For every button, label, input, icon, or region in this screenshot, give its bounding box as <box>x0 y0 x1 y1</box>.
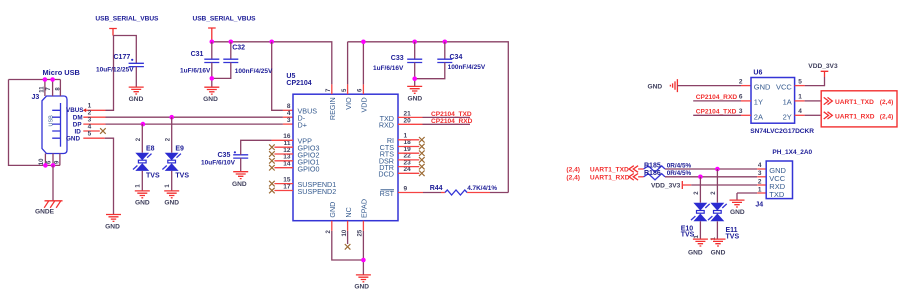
svg-text:1: 1 <box>798 94 802 101</box>
svg-text:2Y: 2Y <box>783 112 792 121</box>
svg-text:1uF/6/16V: 1uF/6/16V <box>373 65 404 72</box>
U5 GPIO no-connect pins <box>269 144 293 193</box>
svg-text:10uF/12/25V: 10uF/12/25V <box>96 67 134 74</box>
svg-text:7: 7 <box>46 87 52 91</box>
svg-text:5: 5 <box>342 88 348 92</box>
ground GND (E11) <box>711 239 726 256</box>
svg-text:TVS: TVS <box>146 172 160 179</box>
U5 left pin numbers <box>283 103 291 190</box>
svg-text:5: 5 <box>88 130 92 137</box>
svg-text:USB_SERIAL_VBUS: USB_SERIAL_VBUS <box>95 16 159 23</box>
svg-text:0R/4/5%: 0R/4/5% <box>667 170 692 177</box>
svg-text:GND: GND <box>66 135 80 142</box>
svg-text:C31: C31 <box>191 51 204 58</box>
svg-text:GND: GND <box>648 83 663 90</box>
ground GND (E8) <box>135 191 150 207</box>
svg-text:2: 2 <box>136 137 142 141</box>
wire U5 GND/EPAD join <box>332 231 364 275</box>
svg-text:USB_SERIAL_VBUS: USB_SERIAL_VBUS <box>193 16 257 23</box>
svg-text:6: 6 <box>358 88 364 92</box>
op-amp U5 CP2104 body <box>286 73 398 221</box>
pin 6 VDD <box>358 84 369 112</box>
node CP2104_TXD pin21 <box>398 111 472 118</box>
wire C35 to gnd <box>240 158 242 171</box>
junction bus/C32 <box>229 40 234 45</box>
wire U6 1A to port <box>795 100 805 102</box>
ground GND (J4 pin1) <box>730 200 745 216</box>
svg-text:2: 2 <box>694 191 700 195</box>
node CP2104_RXD to U6 1Y <box>693 94 751 101</box>
transistor E11 TVS <box>708 169 739 241</box>
svg-text:DCD: DCD <box>378 170 394 179</box>
svg-text:TVS: TVS <box>681 232 695 239</box>
ground GNDE chassis <box>35 201 63 216</box>
power VDD_3V3 (U6) <box>808 63 838 77</box>
junction EPAD gnd <box>361 258 366 263</box>
svg-text:3: 3 <box>739 108 743 115</box>
pin 10 NC no-connect <box>345 231 351 250</box>
ground GND (U5) <box>354 275 371 291</box>
transistor E8 TVS <box>133 124 160 191</box>
node UART1_RXD port <box>824 112 894 121</box>
svg-text:(2,4): (2,4) <box>880 114 894 121</box>
capacitor C31 <box>180 42 219 75</box>
svg-text:CP2104_TXD: CP2104_TXD <box>696 108 737 115</box>
wire DP to U5 D+ <box>83 123 105 125</box>
svg-text:(2,4): (2,4) <box>566 167 580 174</box>
node CP2104_RXD pin20 <box>398 118 473 125</box>
svg-text:9: 9 <box>404 185 408 192</box>
svg-text:USB: USB <box>48 115 54 127</box>
wire VBUS bus to REGIN <box>212 42 332 85</box>
ground GND (C31) <box>203 87 219 103</box>
svg-text:RXD: RXD <box>379 121 394 130</box>
svg-text:20: 20 <box>404 118 412 125</box>
node UART1_TXD input port <box>566 166 638 174</box>
svg-text:1: 1 <box>758 186 762 193</box>
svg-text:GND: GND <box>328 202 337 218</box>
junction bus/C33 <box>412 40 417 45</box>
node GND pin5 <box>66 130 92 142</box>
svg-text:1: 1 <box>165 184 171 188</box>
svg-text:(2,4): (2,4) <box>566 174 580 181</box>
op-amp U6 SN74LVC2G17DCKR <box>739 70 814 135</box>
wire DM to U5 D- <box>83 116 105 118</box>
wire C35 to VPP pin16 <box>241 140 272 155</box>
svg-text:UART1_RXD: UART1_RXD <box>835 114 875 121</box>
svg-text:11: 11 <box>39 86 45 93</box>
wire C177 to gnd <box>135 67 137 87</box>
wire GND pin5 drop <box>83 137 104 139</box>
junction DM/E9 <box>169 115 174 120</box>
wire R186 to J4 pin3 <box>665 176 757 178</box>
ground GND (E10) <box>688 239 708 256</box>
ground GND (E9) <box>164 191 179 207</box>
svg-text:VBUS: VBUS <box>66 107 84 114</box>
connector J4 PH_1X4_2A0 <box>755 149 812 209</box>
capacitor C35 <box>201 151 248 166</box>
node VBUS pin1 <box>66 103 92 114</box>
svg-text:4.7K/4/1%: 4.7K/4/1% <box>467 185 497 192</box>
junction R185/E11 <box>715 167 720 172</box>
svg-text:100nF/4/25V: 100nF/4/25V <box>235 68 273 75</box>
svg-text:U6: U6 <box>753 70 762 77</box>
ground GND (C35) <box>232 172 248 188</box>
svg-text:5: 5 <box>798 78 802 85</box>
svg-text:2: 2 <box>758 178 762 185</box>
svg-text:UART1_TXD: UART1_TXD <box>590 167 629 174</box>
svg-text:7: 7 <box>326 88 332 92</box>
svg-text:2: 2 <box>326 230 332 234</box>
pin 7 REGIN <box>326 84 337 120</box>
svg-text:PH_1X4_2A0: PH_1X4_2A0 <box>772 149 812 156</box>
svg-text:4: 4 <box>798 108 802 115</box>
svg-text:NC: NC <box>344 207 353 217</box>
svg-text:1: 1 <box>694 235 700 239</box>
svg-text:2A: 2A <box>754 112 763 121</box>
resistor R44 <box>398 185 508 195</box>
capacitor C177 <box>96 54 144 74</box>
U5 right pin labels <box>378 114 394 198</box>
svg-text:6: 6 <box>739 94 743 101</box>
junction shield top <box>43 77 48 82</box>
junction bus/T-bar <box>210 40 215 45</box>
svg-text:UART1_RXD: UART1_RXD <box>590 174 630 181</box>
junction bus/VDD <box>361 40 366 45</box>
svg-text:SN74LVC2G17DCKR: SN74LVC2G17DCKR <box>750 128 814 135</box>
U5 right no-connect pins <box>398 137 425 176</box>
node UART1_RXD input port <box>566 174 638 182</box>
svg-text:3: 3 <box>758 170 762 177</box>
wire C33/C34 join <box>415 63 445 87</box>
power USB_SERIAL_VBUS (right) <box>193 16 257 42</box>
svg-text:1Y: 1Y <box>754 98 763 107</box>
svg-text:E9: E9 <box>175 145 184 152</box>
svg-text:CP2104_RXD: CP2104_RXD <box>696 94 738 101</box>
resistor R186 <box>638 170 691 180</box>
wire VBUS <box>86 109 105 111</box>
svg-text:GND: GND <box>354 284 369 291</box>
svg-text:14: 14 <box>283 161 291 168</box>
svg-text:2: 2 <box>739 78 743 85</box>
junction R186/E10 <box>698 175 703 180</box>
port box UART1 out <box>821 91 897 127</box>
svg-text:GND: GND <box>407 96 422 103</box>
svg-text:C177: C177 <box>114 54 131 61</box>
ground GND (U6 input, sideways) <box>648 79 678 92</box>
svg-text:U5: U5 <box>286 73 295 80</box>
node DM pin2 <box>73 110 92 122</box>
ground GND (USB pin5) <box>105 215 121 231</box>
svg-text:GPIO0: GPIO0 <box>298 164 320 173</box>
svg-text:J3: J3 <box>32 94 40 101</box>
svg-text:1A: 1A <box>783 98 792 107</box>
svg-text:SUSPEND2: SUSPEND2 <box>298 187 337 196</box>
node CP2104_TXD to U6 2A <box>693 108 751 115</box>
svg-text:TVS: TVS <box>726 233 740 240</box>
svg-text:VDD: VDD <box>360 97 369 112</box>
svg-text:GND: GND <box>105 223 120 230</box>
power USB_SERIAL_VBUS (left) <box>95 16 159 36</box>
svg-text:GND: GND <box>688 249 703 256</box>
svg-text:UART1_TXD: UART1_TXD <box>835 99 874 106</box>
svg-text:VCC: VCC <box>776 83 792 92</box>
svg-text:C32: C32 <box>232 44 245 51</box>
svg-text:GND: GND <box>135 200 150 207</box>
svg-text:R185: R185 <box>644 162 661 169</box>
svg-text:GNDE: GNDE <box>35 209 55 216</box>
svg-text:GND: GND <box>203 96 218 103</box>
wire VDD bus <box>348 42 509 193</box>
capacitor C32 <box>223 42 273 75</box>
svg-text:Micro USB: Micro USB <box>43 68 80 77</box>
svg-text:3: 3 <box>287 117 291 124</box>
svg-text:EPAD: EPAD <box>360 199 369 218</box>
U5 bottom pins GND/NC/EPAD <box>326 199 369 237</box>
transistor E9 TVS <box>162 117 189 191</box>
svg-text:0R/4/5%: 0R/4/5% <box>667 162 692 169</box>
svg-text:E8: E8 <box>146 145 155 152</box>
svg-text:17: 17 <box>283 183 291 190</box>
svg-text:ID: ID <box>75 128 82 135</box>
svg-text:1: 1 <box>135 184 141 188</box>
junction C33 join <box>412 76 417 81</box>
junction C31 join <box>210 76 215 81</box>
svg-text:100nF/4/25V: 100nF/4/25V <box>448 64 486 71</box>
svg-text:GND: GND <box>730 209 745 216</box>
transistor E10 TVS <box>681 177 710 239</box>
U5 right pin numbers <box>404 111 412 193</box>
svg-text:GND: GND <box>711 249 726 256</box>
junction shield bottom <box>43 163 48 168</box>
connector J3 Micro USB <box>32 68 80 154</box>
junction bus/C34 <box>443 40 448 45</box>
capacitor C33 <box>373 42 422 72</box>
wire J3 shield loop <box>9 80 61 166</box>
svg-text:6: 6 <box>47 160 53 164</box>
node DP pin3 <box>73 117 92 129</box>
wire VDD_3V3 to U6 VCC pin5 <box>805 77 825 86</box>
svg-text:1: 1 <box>88 103 92 110</box>
svg-text:10uF/6/10V: 10uF/6/10V <box>201 160 236 167</box>
node UART1_TXD port <box>824 97 894 106</box>
svg-text:TXD: TXD <box>769 190 785 199</box>
svg-text:REGIN: REGIN <box>328 97 337 120</box>
wire GNDE drop <box>52 165 54 200</box>
svg-text:R186: R186 <box>644 170 661 177</box>
svg-text:VDD_3V3: VDD_3V3 <box>651 182 681 189</box>
wire VDD_3V3 to J4 pin2 <box>682 184 691 186</box>
pin 5 VIO <box>342 84 353 109</box>
svg-text:10: 10 <box>342 229 348 236</box>
wire U6 2Y to port <box>795 114 805 116</box>
svg-text:C35: C35 <box>218 152 231 159</box>
junction DP/E8 <box>141 122 146 127</box>
ground GND (C33) <box>407 86 422 102</box>
svg-text:VIO: VIO <box>344 97 353 110</box>
wire U6 GND pin2 <box>677 85 741 87</box>
ground GND (C177) <box>129 87 144 103</box>
svg-text:GND: GND <box>232 181 247 188</box>
wire bus to U5 VBUS pin8 <box>272 42 283 111</box>
svg-text:CP2104: CP2104 <box>286 80 311 87</box>
svg-text:J4: J4 <box>755 202 763 209</box>
wire USB_SERIAL_VBUS to C177 <box>114 36 137 64</box>
svg-text:25: 25 <box>358 229 364 236</box>
svg-text:GND: GND <box>754 83 771 92</box>
svg-text:TVS: TVS <box>175 172 189 179</box>
power VDD_3V3 (J4) <box>651 181 682 189</box>
wire C31/C32 join <box>212 63 231 88</box>
svg-text:D+: D+ <box>298 121 307 130</box>
svg-text:2: 2 <box>711 191 717 195</box>
svg-text:4: 4 <box>758 162 762 169</box>
U5 left pin labels <box>298 107 337 196</box>
svg-text:R44: R44 <box>430 185 443 192</box>
svg-text:GND: GND <box>164 200 179 207</box>
wire R185 to J4 pin4 <box>665 168 757 170</box>
resistor R185 <box>638 162 691 172</box>
svg-text:1uF/6/16V: 1uF/6/16V <box>180 67 211 74</box>
wire J4 pin1 to gnd <box>737 193 757 200</box>
svg-text:CP2104_RXD: CP2104_RXD <box>431 118 473 125</box>
svg-text:10: 10 <box>39 158 45 165</box>
svg-text:2: 2 <box>165 137 171 141</box>
node ID pin4 no-connect <box>75 123 106 135</box>
svg-text:VDD_3V3: VDD_3V3 <box>808 63 838 70</box>
svg-text:(2,4): (2,4) <box>880 99 894 106</box>
svg-text:GND: GND <box>129 96 144 103</box>
capacitor C34 <box>437 42 486 71</box>
svg-text:C33: C33 <box>391 55 404 62</box>
junction bus/pin8 <box>269 40 274 45</box>
